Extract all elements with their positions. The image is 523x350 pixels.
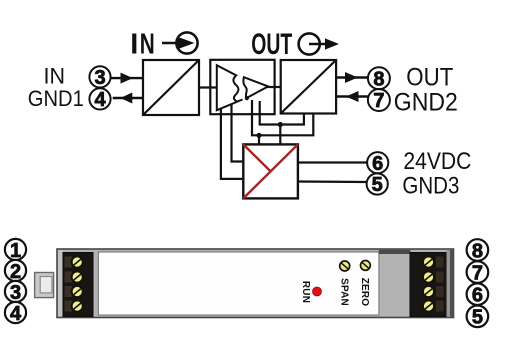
right terminal cavities	[436, 257, 444, 312]
net E wire: U1 secondary to A2 bottom	[260, 101, 304, 125]
module pin 6	[467, 283, 489, 306]
svg-text:1: 1	[10, 240, 21, 262]
svg-text:4: 4	[94, 89, 106, 111]
terminal 8	[368, 67, 390, 90]
front label plate	[98, 252, 379, 315]
svg-text:3: 3	[10, 282, 21, 304]
screw terminal 1	[72, 256, 83, 267]
module pin 3	[5, 281, 26, 304]
svg-text:24VDC: 24VDC	[403, 148, 471, 175]
wire A2 to terminal 8 (arrow right)	[336, 72, 368, 83]
module pin 7	[467, 261, 489, 284]
input converter block A1	[143, 60, 199, 115]
screw terminal 7	[423, 271, 434, 282]
svg-text:ZERO: ZERO	[359, 278, 370, 307]
svg-text:RUN: RUN	[300, 281, 311, 303]
wire terminal3 to input block (arrow right)	[111, 73, 143, 84]
svg-text:5: 5	[372, 174, 383, 196]
output signal symbol	[299, 33, 339, 54]
ZERO potentiometer screw	[361, 261, 371, 271]
wire U1 primary supply to DC/DC (lower tap)	[221, 108, 243, 179]
svg-text:3: 3	[94, 67, 105, 89]
RUN LED	[313, 287, 322, 296]
svg-text:GND3: GND3	[402, 173, 459, 200]
top shading over right gray gap	[379, 250, 411, 254]
DC/DC converter PS1	[243, 144, 298, 198]
module pin 1	[5, 239, 26, 262]
junction on U1 secondary	[245, 96, 249, 100]
svg-text:6: 6	[372, 153, 383, 175]
svg-text:GND2: GND2	[394, 89, 458, 117]
isolation amplifier U1	[210, 60, 274, 114]
svg-text:I: I	[130, 29, 138, 61]
module pin 8	[467, 239, 489, 262]
wire U1 to output block A2	[267, 86, 281, 88]
terminal 4	[89, 88, 110, 111]
screw terminal 8	[423, 256, 434, 267]
screw terminal 5	[423, 300, 434, 311]
module pin 5	[467, 306, 489, 329]
wire terminal 7 to A2 (arrow left)	[336, 91, 368, 102]
terminal 7	[368, 89, 390, 112]
module pin 2	[5, 260, 26, 283]
terminal 6	[367, 152, 388, 175]
output converter block A2	[281, 60, 336, 114]
module pin 4	[5, 302, 26, 325]
svg-text:SPAN: SPAN	[338, 278, 349, 306]
screw terminal 2	[72, 271, 83, 282]
screw terminal 3	[72, 286, 83, 297]
junction net F	[256, 133, 261, 138]
screw terminal 6	[423, 286, 434, 297]
left terminal block (terminals 1-4)	[63, 253, 93, 317]
SPAN potentiometer screw	[340, 261, 350, 271]
module left end highlight	[58, 250, 63, 317]
module body	[57, 249, 454, 318]
wire junction E down to DC/DC top	[279, 125, 281, 145]
svg-text:OUT: OUT	[406, 64, 453, 92]
DIN rail clip	[35, 273, 54, 298]
left terminal cavities	[65, 257, 73, 312]
svg-text:2: 2	[10, 261, 21, 283]
screw terminal 4	[72, 300, 83, 311]
wire junction F down to DC/DC top	[258, 135, 260, 144]
wire input block to terminal4 (arrow left)	[113, 93, 143, 104]
junction net E	[278, 122, 283, 127]
svg-text:4: 4	[10, 303, 22, 325]
right terminal block (terminals 5-8)	[410, 253, 447, 317]
terminal 3	[89, 66, 110, 89]
net F wire: U1 secondary to A2 bottom	[252, 100, 313, 135]
input signal source symbol	[162, 32, 198, 53]
svg-text:IN: IN	[44, 64, 66, 89]
svg-text:7: 7	[472, 263, 483, 285]
svg-text:OUT: OUT	[251, 28, 292, 61]
wire DC/DC to terminal 6	[298, 161, 367, 163]
svg-text:8: 8	[472, 240, 483, 262]
svg-text:GND1: GND1	[28, 86, 84, 111]
wire A1 to isolation amp U1	[199, 86, 217, 88]
svg-text:6: 6	[472, 285, 483, 307]
svg-text:8: 8	[373, 68, 384, 90]
svg-text:7: 7	[373, 90, 384, 112]
terminal 5	[367, 173, 388, 196]
module right end cap	[447, 250, 450, 317]
svg-text:5: 5	[472, 307, 483, 329]
wire U1 primary supply to DC/DC (upper tap)	[232, 104, 244, 162]
svg-text:N: N	[140, 29, 155, 61]
wire DC/DC to terminal 5	[298, 180, 367, 183]
